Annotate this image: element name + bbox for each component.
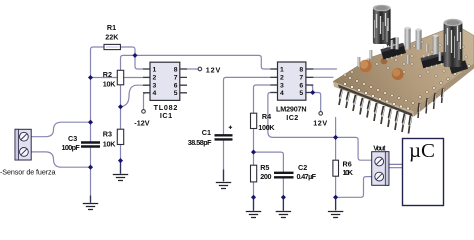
wire output node to IC2 pin1 (long top wire) [135,55,278,69]
svg-text:3: 3 [280,82,284,89]
svg-text:10K: 10K [103,139,116,148]
node junction sensor lower [88,165,93,170]
node junction sensor upper [88,120,93,125]
wire Vout to uC (double) [389,164,403,167]
svg-text:6: 6 [299,82,303,89]
wire node R4/R5 to C2 top [254,152,284,171]
svg-text:5: 5 [174,90,178,97]
svg-text:8: 8 [174,66,178,73]
svg-text:12V: 12V [206,65,221,74]
resistor R6 [333,160,339,176]
svg-text:4: 4 [280,90,284,97]
capacitor C2 [277,174,290,176]
svg-text:-12V: -12V [134,119,149,128]
aluminum post 3 [433,36,439,55]
wire IC2 pin3 left and down to R4 [254,85,279,113]
svg-text:µC: µC [409,141,435,162]
terminal -12V at IC1 pin4 [142,110,146,114]
wire sensor lower to node B line [31,152,90,167]
PCB photo [333,5,474,134]
IC2 pin numbers 1-8 [280,66,303,96]
frequency converter IC2 LM2907N body [278,62,306,100]
svg-text:IC1: IC1 [160,111,172,120]
svg-text:200: 200 [260,172,271,181]
node junction above ground G2 [118,158,123,163]
wire IC1 pin4 to -12V terminal [144,93,151,110]
svg-text:5: 5 [299,90,303,97]
ground G1 [83,204,98,210]
wire R3 bottom to ground G2 [120,145,122,173]
node junction IC2 pin5/pin6 [310,90,315,95]
DIP IC A [380,41,407,61]
resistor R1 [104,44,120,49]
ground G5 [276,212,291,218]
wire R2/R3 node to IC1 pin3 [121,85,151,107]
microcontroller box [403,139,444,206]
svg-text:7: 7 [299,75,303,82]
ground stems (dark) [91,161,336,211]
svg-text:R1: R1 [107,23,116,32]
wire R2 bottom to R3 top [120,85,122,129]
disc capacitor right [392,68,404,80]
wire R6 bottom to ground G6 [335,176,337,209]
svg-text:IC2: IC2 [286,113,298,122]
wire sensor upper to node A line [31,122,90,137]
svg-text:Vout: Vout [373,144,386,153]
resistor R5 [251,165,257,182]
svg-text:10K: 10K [343,168,354,177]
DIP IC B [420,50,446,70]
ground G6 [328,212,343,218]
wire IC2 pin2 left and down to C1 [224,77,279,134]
header strip under left edge [338,85,413,117]
svg-text:38.58pF: 38.58pF [188,138,212,147]
node junction R6 top [333,135,338,140]
svg-text:8: 8 [299,66,303,73]
svg-text:2: 2 [153,75,157,82]
wire node A to IC1 pin2 [91,77,151,79]
ground G3 [216,183,231,189]
IC2 pin stubs [270,69,313,93]
svg-text:R4: R4 [262,112,271,121]
wire IC2 pin7 stub right [306,76,333,78]
wire IC2 pin8 stub right [306,68,337,70]
svg-text:100K: 100K [258,123,275,132]
svg-text:10K: 10K [103,79,116,88]
svg-text:1: 1 [280,66,284,73]
wire IC1 pin8 to 12V terminal [179,68,198,70]
wire C1 bottom to ground G3 [223,141,225,181]
electrolytic capacitor left [373,8,391,45]
capacitor C3 [84,144,97,146]
svg-text:1: 1 [153,66,157,73]
svg-text:C2: C2 [298,163,307,172]
svg-text:6: 6 [174,83,178,90]
wire from PCB down to R6 node [335,118,337,161]
ground G2 [113,175,128,181]
wire R1 right to output node and down to IC1 pin1 [121,47,151,69]
terminal 12V at IC2 pin5 [319,112,323,116]
small silver pins [358,37,450,67]
wire R4 bottom to R5 top [253,129,255,166]
ground G4 [246,212,261,218]
pins lower-right [419,89,444,113]
svg-text:2: 2 [280,75,284,82]
wire output node left to R2 top [121,55,136,70]
svg-text:100pF: 100pF [62,143,81,152]
connector J2 Vout [372,152,389,186]
black component right edge [449,60,468,74]
svg-text:22K: 22K [105,33,119,42]
resistor R3 [117,129,123,144]
svg-text:R5: R5 [260,163,269,172]
node junction R4/R5/C2 [251,150,256,155]
terminal 12V at IC1 pin8 [198,67,202,71]
op-amp IC1 TL082 body [150,62,180,100]
pins row lower-left [340,89,411,125]
aluminum post 2 [416,30,422,50]
aluminum post 1 [405,28,411,50]
electrolytic capacitor right [444,22,463,67]
wire R5 bottom to ground G4 [253,182,255,210]
IC1 pin numbers 1-8 [153,66,178,97]
node A junction (R2 wire) [88,75,93,80]
resistor R4 [251,113,257,128]
IC1 pin stubs [143,69,187,93]
svg-text:LM2907N: LM2907N [276,104,307,113]
wire IC2 pin6 down to pin5 node [306,85,313,93]
wire IC2 pin5 node to 12V terminal [306,93,321,112]
svg-text:-Sensor de fuerza: -Sensor de fuerza [0,168,56,177]
svg-text:R2: R2 [103,70,112,79]
disc capacitor left [359,60,372,73]
node: output junction [132,53,137,58]
svg-text:0.47µF: 0.47µF [297,172,317,181]
connector J1 force sensor [15,129,31,160]
node junction R2/R3 to pin3 [118,104,123,109]
small brown part [381,58,388,65]
resistor R2 [117,70,123,85]
board side face lower-left [333,82,414,117]
wire C2 bottom to ground G5 [282,179,284,210]
svg-text:C1: C1 [202,128,211,137]
board side face lower-right [413,64,474,117]
svg-text:12V: 12V [313,119,327,128]
node junction above ground G5 [281,195,286,200]
node junction above ground G4 [251,195,256,200]
wire Vout lower terminal to ground node [336,177,372,198]
svg-text:7: 7 [174,75,178,82]
board top surface [333,27,474,111]
capacitor C1 [217,136,230,138]
wire R6 node to Vout upper terminal [336,137,372,160]
wire IC2 pin4 output to R6 node [268,93,336,138]
node junction R6 bottom / Vout return [333,195,338,200]
svg-text:3: 3 [153,83,157,90]
svg-text:R3: R3 [103,129,112,138]
wire left rail from R1 left down to ground G1 [91,47,105,202]
solder pads [344,35,471,110]
svg-text:4: 4 [153,90,157,97]
